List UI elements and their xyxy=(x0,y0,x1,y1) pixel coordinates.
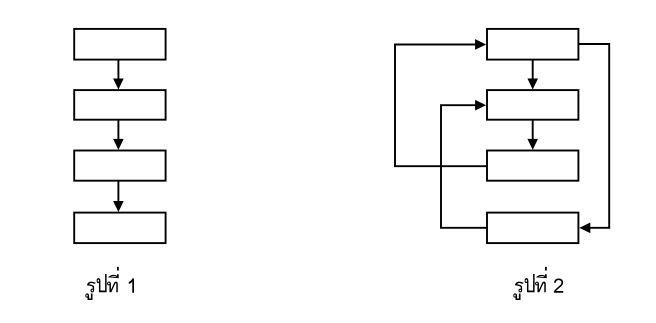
box L3 xyxy=(74,151,165,181)
box R3 xyxy=(487,151,578,181)
box R2 xyxy=(487,90,578,120)
label figure 2 (Thai) xyxy=(513,267,563,300)
wire R4 to R2 xyxy=(441,105,487,228)
arrow R1-R2 xyxy=(532,60,534,80)
box L4 xyxy=(74,213,165,244)
arrow L2-L3 xyxy=(117,120,119,141)
arrow L1-L2 xyxy=(117,60,119,80)
arrow R2-R3 xyxy=(532,120,534,141)
label figure 1 (Thai) xyxy=(85,267,134,300)
wire R3 to R1 xyxy=(395,45,487,167)
arrow L3-L4 xyxy=(117,181,119,203)
wire R1 to R4 xyxy=(578,44,609,228)
box R1 xyxy=(487,29,578,60)
box L2 xyxy=(74,90,165,120)
box L1 xyxy=(74,29,165,60)
box R4 xyxy=(487,213,578,244)
